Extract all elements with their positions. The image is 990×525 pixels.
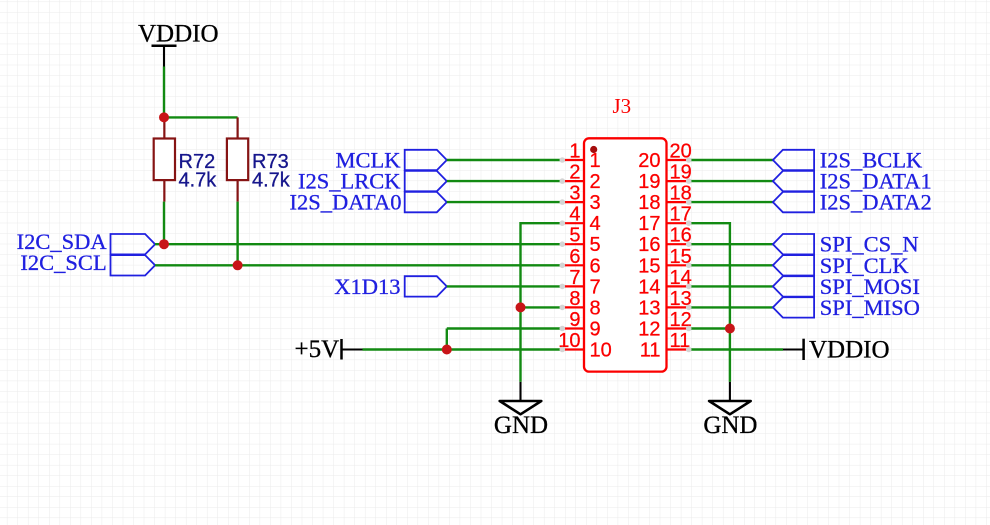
- hierarchical label MCLK: [335, 148, 446, 173]
- J3 pin 5: [562, 225, 600, 257]
- svg-text:12: 12: [638, 319, 660, 341]
- wire J3 pin 18 to I2S_DATA2: [689, 201, 773, 203]
- svg-text:11: 11: [640, 340, 661, 362]
- svg-text:4.7k: 4.7k: [179, 170, 218, 192]
- J3 pin 1 orientation dot: [590, 146, 597, 153]
- svg-text:6: 6: [590, 255, 601, 277]
- wire +5V branch up to pin 9 row: [446, 329, 448, 350]
- J3 pin 12: [638, 309, 692, 341]
- wire I2C_SCL to J3 pin 6: [155, 264, 562, 266]
- svg-text:I2S_DATA2: I2S_DATA2: [820, 190, 932, 215]
- J3 pin 7: [562, 267, 600, 299]
- svg-text:VDDIO: VDDIO: [809, 337, 890, 364]
- junction node A (VDDIO / R72 / R73): [159, 112, 169, 122]
- wire VDDIO down to node A: [163, 67, 165, 118]
- wire J3 pin 11 to VDDIO right: [689, 348, 783, 350]
- J3 pin 18: [638, 183, 692, 215]
- ground symbol GND (left): [494, 382, 548, 439]
- pin end markers (gray) left: [560, 157, 566, 352]
- J3 pin 17: [638, 204, 692, 236]
- svg-text:9: 9: [569, 309, 580, 331]
- svg-text:9: 9: [590, 319, 601, 341]
- svg-text:8: 8: [590, 297, 601, 319]
- svg-text:4.7k: 4.7k: [252, 170, 291, 192]
- J3 pin 3: [562, 183, 600, 215]
- wire X1D13 to J3 pin 7: [447, 285, 563, 287]
- svg-text:X1D13: X1D13: [334, 274, 400, 299]
- svg-text:3: 3: [590, 192, 601, 214]
- hierarchical label I2C_SDA: [17, 229, 155, 254]
- wire J3 pin 12 to right GND vertical: [689, 327, 730, 329]
- resistor R73: [227, 117, 248, 201]
- wire +5V to J3 pin 10: [363, 348, 563, 350]
- ground symbol GND (right): [703, 382, 757, 439]
- svg-text:VDDIO: VDDIO: [138, 21, 219, 48]
- svg-text:SPI_MISO: SPI_MISO: [820, 295, 920, 320]
- hierarchical label SPI_CS_N: [773, 232, 919, 257]
- wire R73 bottom to I2C_SCL net: [236, 202, 238, 266]
- svg-text:1: 1: [590, 150, 601, 172]
- J3 pin 19: [638, 162, 692, 194]
- wire J3 pin 20 to I2S_BCLK: [689, 159, 773, 161]
- wire J3 pin 17 to right GND vertical: [689, 223, 730, 382]
- J3 pin 4: [562, 204, 600, 236]
- hierarchical label X1D13: [334, 274, 447, 299]
- wire I2C_SDA to J3 pin 5: [155, 243, 562, 245]
- resistor R72: [154, 117, 175, 201]
- svg-text:15: 15: [638, 255, 660, 277]
- connector J3 body: [584, 138, 667, 371]
- svg-text:18: 18: [638, 192, 660, 214]
- wire J3 pin 14 to SPI_MOSI: [689, 285, 773, 287]
- svg-text:5: 5: [590, 234, 601, 256]
- J3 pin 13: [638, 288, 692, 320]
- svg-text:13: 13: [638, 297, 660, 319]
- svg-text:7: 7: [590, 276, 601, 298]
- J3 pin 15: [638, 246, 692, 278]
- wire J3 pin 13 to SPI_MISO: [689, 306, 773, 308]
- hierarchical label I2S_LRCK: [298, 169, 447, 194]
- hierarchical label I2S_DATA2: [773, 190, 932, 215]
- svg-text:6: 6: [569, 246, 580, 268]
- svg-text:8: 8: [569, 288, 580, 310]
- svg-text:I2C_SCL: I2C_SCL: [20, 250, 106, 275]
- J3 pin 10: [558, 330, 612, 362]
- wire I2S_DATA0 to J3 pin 3: [447, 201, 563, 203]
- junction +5V / pin 9 branch: [442, 345, 452, 355]
- J3 pin 20: [638, 141, 692, 173]
- svg-text:5: 5: [569, 225, 580, 247]
- wire R72 bottom to I2C_SDA net: [163, 202, 165, 245]
- wire branch to J3 pin 9: [447, 327, 563, 329]
- svg-text:4: 4: [590, 213, 601, 235]
- junction pin 8 / GND vertical: [516, 302, 526, 312]
- J3 pin 14: [638, 267, 692, 299]
- hierarchical label I2S_BCLK: [773, 148, 923, 173]
- svg-text:10: 10: [590, 340, 612, 362]
- hierarchical label I2C_SCL: [20, 250, 155, 275]
- J3 pin 16: [638, 225, 692, 257]
- hierarchical label SPI_MISO: [773, 295, 920, 320]
- svg-text:+5V: +5V: [295, 336, 340, 363]
- svg-text:3: 3: [569, 183, 580, 205]
- power symbol VDDIO (top): [138, 21, 219, 67]
- junction I2C_SDA / R72: [159, 239, 169, 249]
- hierarchical label I2S_DATA1: [773, 169, 932, 194]
- svg-text:16: 16: [638, 234, 660, 256]
- svg-text:I2S_DATA0: I2S_DATA0: [290, 190, 402, 215]
- svg-text:GND: GND: [703, 412, 757, 439]
- wire J3 pin 4 to GND vertical: [521, 223, 563, 382]
- J3 pin 9: [562, 309, 600, 341]
- wire I2S_LRCK to J3 pin 2: [447, 180, 563, 182]
- power symbol VDDIO (right): [783, 337, 890, 364]
- hierarchical label I2S_DATA0: [290, 190, 447, 215]
- svg-text:1: 1: [569, 141, 580, 163]
- J3 pin 2: [562, 162, 600, 194]
- J3 pin 8: [562, 288, 600, 320]
- junction pin 12 / GND vertical: [725, 324, 735, 334]
- svg-text:GND: GND: [494, 412, 548, 439]
- svg-text:7: 7: [569, 267, 580, 289]
- svg-text:14: 14: [638, 276, 660, 298]
- power symbol +5V: [295, 336, 363, 363]
- svg-text:4: 4: [569, 204, 580, 226]
- svg-text:2: 2: [569, 162, 580, 184]
- wire J3 pin 19 to I2S_DATA1: [689, 180, 773, 182]
- svg-text:17: 17: [638, 213, 660, 235]
- wire node A to R73 top: [164, 116, 238, 118]
- hierarchical label SPI_CLK: [773, 253, 909, 278]
- junction I2C_SCL / R73: [233, 260, 243, 270]
- J3 pin 1: [562, 141, 600, 173]
- svg-text:19: 19: [638, 171, 660, 193]
- wire J3 pin 8 to GND vertical: [521, 306, 563, 308]
- svg-text:J3: J3: [613, 94, 632, 118]
- svg-text:2: 2: [590, 171, 601, 193]
- pin end markers (gray) right: [686, 157, 692, 352]
- hierarchical label SPI_MOSI: [773, 274, 920, 299]
- svg-text:20: 20: [638, 150, 660, 172]
- wire MCLK to J3 pin 1: [447, 159, 563, 161]
- wire J3 pin 16 to SPI_CS_N: [689, 243, 773, 245]
- wire J3 pin 15 to SPI_CLK: [689, 264, 773, 266]
- J3 pin 6: [562, 246, 600, 278]
- J3 pin 11: [640, 330, 691, 362]
